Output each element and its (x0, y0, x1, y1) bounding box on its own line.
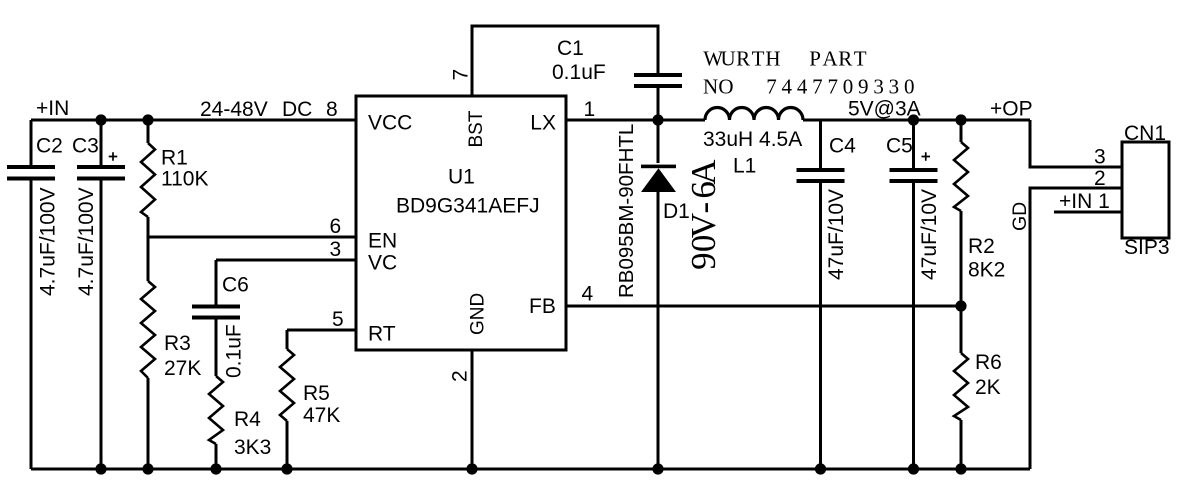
svg-text:+OP: +OP (990, 98, 1033, 121)
node C3 bottom junction (95, 463, 106, 474)
pin 2 label CN1 (1094, 167, 1106, 190)
svg-text:R2: R2 (968, 235, 995, 258)
svg-text:SIP3: SIP3 (1124, 236, 1170, 259)
svg-text:6: 6 (330, 215, 342, 238)
svg-text:+IN 1: +IN 1 (1059, 190, 1110, 213)
node C4 bottom junction (815, 463, 826, 474)
connector CN1 (1122, 122, 1170, 259)
svg-text:BD9G341AEFJ: BD9G341AEFJ (396, 195, 540, 218)
node C5 bottom junction (908, 463, 919, 474)
wire +IN top rail (31, 119, 356, 122)
svg-text:2: 2 (449, 370, 472, 382)
node R4 bottom junction (210, 463, 221, 474)
wire EN net (148, 236, 356, 239)
svg-text:4.7uF/100V: 4.7uF/100V (37, 187, 60, 296)
node C5 top junction (908, 114, 919, 125)
svg-text:R1: R1 (161, 147, 188, 170)
svg-text:R4: R4 (234, 408, 261, 431)
svg-text:VCC: VCC (368, 112, 412, 135)
svg-text:U1: U1 (448, 166, 475, 189)
label WURTH part number (703, 46, 914, 98)
svg-text:3: 3 (1094, 146, 1106, 169)
pin 4 label (582, 283, 594, 306)
resistor R1 (141, 120, 209, 237)
wire GD net (1030, 188, 1122, 469)
svg-text:GND: GND (468, 293, 489, 335)
capacitor C2 (7, 120, 63, 469)
wire BST loop (472, 26, 658, 96)
svg-text:4.7uF/100V: 4.7uF/100V (75, 187, 98, 296)
wire +IN stub to CN1 pin1 (1054, 211, 1122, 214)
svg-text:27K: 27K (164, 357, 201, 380)
diode D1 (615, 120, 723, 469)
svg-text:DC: DC (282, 98, 312, 121)
inductor L1 (703, 107, 803, 177)
wire LX net (566, 119, 705, 122)
svg-text:0.1uF: 0.1uF (223, 324, 246, 378)
capacitor C5 (886, 120, 941, 469)
node R5 bottom junction (281, 463, 292, 474)
svg-text:24-48V: 24-48V (200, 98, 268, 121)
resistor R6 (954, 306, 1002, 469)
pin 5 label (332, 308, 344, 331)
node R1 top junction (142, 114, 153, 125)
svg-text:GD: GD (1009, 202, 1031, 231)
svg-text:C6: C6 (222, 274, 249, 297)
svg-text:LX: LX (530, 112, 556, 135)
pin 8 label (326, 98, 338, 121)
node R3 bottom junction (142, 463, 153, 474)
node FB junction (955, 300, 966, 311)
svg-text:5: 5 (332, 308, 344, 331)
svg-text:+IN: +IN (36, 97, 69, 120)
node R6 bottom junction (955, 463, 966, 474)
pin 3 label CN1 (1094, 146, 1106, 169)
node GND pin2 junction (466, 463, 477, 474)
resistor R2 (954, 120, 1005, 306)
pin 2 label (449, 370, 472, 382)
svg-text:L1: L1 (733, 155, 756, 178)
svg-text:110K: 110K (161, 168, 209, 191)
svg-text:0.1uF: 0.1uF (552, 61, 606, 84)
svg-text:RB095BM-90FHTL: RB095BM-90FHTL (615, 124, 638, 298)
svg-text:C2: C2 (36, 135, 63, 158)
svg-text:47K: 47K (303, 404, 340, 427)
svg-text:R5: R5 (303, 382, 330, 405)
svg-text:EN: EN (368, 230, 397, 253)
svg-text:1: 1 (584, 98, 596, 121)
svg-text:C5: C5 (886, 135, 913, 158)
svg-text:FB: FB (529, 295, 556, 318)
svg-text:CN1: CN1 (1124, 122, 1166, 145)
wire RT net (287, 330, 356, 349)
svg-text:90V-6A: 90V-6A (684, 159, 723, 270)
svg-text:R6: R6 (975, 351, 1002, 374)
wire GND pin2 (471, 350, 474, 469)
resistor R4 (209, 320, 271, 470)
svg-text:VC: VC (368, 252, 397, 275)
node +OP label (990, 98, 1033, 121)
svg-text:2K: 2K (975, 376, 1001, 399)
svg-text:47uF/10V: 47uF/10V (918, 189, 941, 280)
pin 7 label (450, 69, 473, 81)
svg-text:7: 7 (450, 69, 473, 81)
op-amp U1 IC box (356, 96, 566, 350)
svg-text:3K3: 3K3 (234, 436, 271, 459)
node D1 bottom junction (652, 463, 663, 474)
resistor R3 (141, 237, 201, 469)
svg-text:RT: RT (368, 323, 396, 346)
svg-text:2: 2 (1094, 167, 1106, 190)
svg-text:4: 4 (582, 283, 594, 306)
svg-text:BST: BST (466, 110, 487, 147)
svg-text:33uH 4.5A: 33uH 4.5A (703, 128, 802, 151)
wire 5V output net (803, 119, 1030, 122)
resistor R5 (280, 349, 340, 469)
svg-text:C1: C1 (557, 37, 584, 60)
svg-text:47uF/10V: 47uF/10V (825, 189, 848, 280)
svg-text:R3: R3 (164, 332, 191, 355)
node GD label (1009, 202, 1031, 231)
node C3 top junction (95, 114, 106, 125)
node R2 top junction (955, 114, 966, 125)
wire ground rail (31, 468, 1030, 471)
capacitor C4 (797, 120, 857, 469)
node 5V@3A label (848, 98, 921, 121)
capacitor C3 (72, 120, 125, 469)
wire VC net (216, 260, 356, 305)
node LX junction (652, 114, 663, 125)
svg-text:8K2: 8K2 (968, 259, 1005, 282)
node +IN label (36, 97, 69, 120)
pin 1 label (584, 98, 596, 121)
svg-text:8: 8 (326, 98, 338, 121)
node 24-48V DC label (200, 98, 312, 121)
pin 3 label (330, 238, 342, 261)
node +IN 1 label (1059, 190, 1110, 213)
svg-text:C4: C4 (829, 135, 856, 158)
pin 6 label (330, 215, 342, 238)
capacitor C6 (192, 274, 249, 379)
wire FB net (566, 305, 961, 308)
wire +OP to CN1 pin3 (1030, 120, 1122, 167)
svg-text:3: 3 (330, 238, 342, 261)
svg-text:C3: C3 (72, 135, 99, 158)
capacitor C1 (552, 37, 682, 120)
